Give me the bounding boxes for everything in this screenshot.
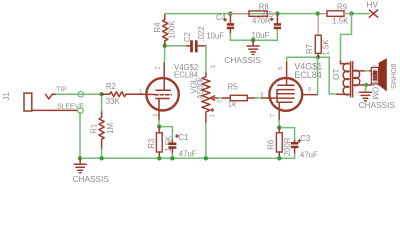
jack tip pin circle [78,91,84,97]
svg-text:C2: C2 [183,32,192,42]
svg-text:47uF: 47uF [179,150,197,159]
wire C2 down to volume pot [205,46,207,73]
svg-text:2: 2 [156,66,162,70]
resistor R2 [102,92,140,97]
node R4/C2/anode [163,44,167,48]
svg-text:OT: OT [331,68,341,80]
wire R9 to HV [350,13,370,15]
capacitor C4 [227,15,234,40]
transformer OT secondary winding [354,70,372,85]
wire wiper to R5 [218,97,222,99]
svg-text:6: 6 [278,66,284,70]
wire cathode V4G$2 down [158,120,160,126]
V4G$1 grid g3 dashes [278,89,294,91]
capacitor C2 coupling [167,40,206,52]
C1 origin mark [176,135,178,137]
transformer core lines [351,62,353,97]
node rail/R7 [316,11,320,15]
V4G$1 grid g2 dashes [278,93,294,95]
wire C4 bottom to C5 bottom [230,29,277,40]
node pot/bus [204,156,208,160]
svg-text:CHASSIS: CHASSIS [73,174,110,184]
node sleeve/bus [78,156,82,160]
node tip/R2/R1 junction [99,92,103,96]
svg-text:10uF: 10uF [252,31,270,40]
svg-text:10KOM: 10KOM [371,73,380,99]
V4G$1 grid lead pin 8 [262,97,277,99]
resistor R3 [156,127,162,159]
node ground tap [251,38,255,42]
node R9/HV/OT [349,11,353,15]
node C1/bus [170,156,174,160]
V4G$2 anode lead (pin 2) [163,62,165,90]
svg-text:TIP: TIP [56,87,67,94]
svg-text:1k: 1k [228,99,236,108]
HV rail wire [165,13,323,15]
ground bus wire [80,157,295,159]
V4G$1 anode lead (pin 6) [286,61,288,85]
node anode/R7 [316,55,320,59]
svg-text:1: 1 [210,113,216,117]
svg-text:10uF: 10uF [206,31,224,40]
jack tip contact [46,94,57,99]
wire pot bottom to bus [205,123,207,158]
wire cathode V4G$1 down [278,120,280,127]
transformer OT primary winding [337,61,349,95]
resistor R9 [320,11,350,16]
wire anode V4G$1 up and right to R7 bottom [287,57,330,61]
tube V4G$2 triode circle [146,78,178,110]
svg-text:2: 2 [218,99,224,103]
svg-text:200R: 200R [283,137,292,156]
svg-text:R5: R5 [228,83,239,92]
resistor R4 [163,14,168,45]
resistor R5 [222,95,255,100]
node rail/C4 [228,11,232,15]
V4G$1 screen lead (pin 9) [302,94,317,96]
svg-text:R9: R9 [337,2,347,11]
svg-text:C1: C1 [178,133,188,142]
svg-text:HV: HV [367,0,379,10]
node speaker/ground [364,83,368,87]
potentiometer VOL A500k [202,73,219,123]
wire R1 to ground bus [101,149,103,158]
V4G$2 anode bar [156,89,170,91]
ground chassis right [359,92,371,100]
svg-text:J1: J1 [2,92,11,100]
svg-text:47uF: 47uF [300,151,318,160]
node R3/C1 [157,124,161,128]
capacitor C1 [161,127,176,159]
C4 origin mark [224,19,226,21]
capacitor C3 [281,128,298,159]
C3 origin mark [298,140,300,142]
svg-text:R7: R7 [305,44,314,54]
node R3/bus [157,156,161,160]
V4G$1 cathode bar [278,101,292,103]
capacitor C5 [274,15,281,29]
wire plate node down to OT primary bottom [329,57,337,94]
svg-text:R4: R4 [153,22,162,33]
svg-text:7: 7 [270,113,276,117]
svg-text:R3: R3 [147,139,156,149]
jack sleeve pin circle [78,108,84,114]
node R6/C3 [277,125,281,129]
wire R5 to pin 8 [255,97,262,99]
resistor R8 [230,11,276,16]
C5 origin mark [271,18,273,20]
svg-text:.022: .022 [197,26,206,41]
HV net flag X [369,10,377,17]
V4G$1 anode bar [278,84,294,86]
svg-text:100K: 100K [168,20,177,39]
resistor R1 [99,112,104,149]
wire to chassis right [365,85,367,92]
wire HV node to OT primary top [341,14,352,61]
svg-text:A500k: A500k [196,77,205,99]
wire anode up to R4/C2 node [164,46,166,62]
tube V4G$1 pentode circle [269,78,302,111]
svg-text:1M: 1M [106,123,115,134]
node R6/bus [277,156,281,160]
wire R7 bottom down to pin 9 [317,57,319,94]
node rail/C5 [275,11,279,15]
V4G$1 cathode lead (pin 7) [278,102,280,120]
resistor R7 [315,15,321,57]
svg-text:8OHMS: 8OHMS [389,64,396,89]
node R1/bus [99,156,103,160]
svg-text:33K: 33K [106,97,121,106]
V4G$2 grid dashes [155,94,172,96]
svg-text:1.5K: 1.5K [321,39,330,56]
V4G$1 grid g1 dashes [278,97,294,99]
svg-text:R6: R6 [267,140,276,150]
svg-text:CHASSIS: CHASSIS [224,55,261,65]
svg-text:R8: R8 [259,2,269,11]
svg-text:C3: C3 [300,134,310,143]
wire tip to node [57,93,102,95]
ground chassis left [74,158,86,172]
svg-text:CHASSIS: CHASSIS [359,100,396,110]
svg-text:9: 9 [308,87,312,93]
resistor R6 [276,128,282,159]
jack sleeve contact [32,109,78,111]
V4G$2 cathode lead (pin 3) [158,99,160,121]
wire node down to R1 [101,96,103,117]
svg-text:R1: R1 [90,124,99,134]
V4G$2 cathode bar [156,98,169,100]
connector J1 jack body [24,93,32,111]
ground chassis middle [247,40,259,54]
wire sleeve down to bus [79,113,81,159]
wire R2 to tube grid pin [139,93,155,95]
speaker cone [379,58,387,91]
svg-text:R2: R2 [106,82,116,91]
svg-text:1.5K: 1.5K [332,16,349,25]
pot origin mark [211,109,213,111]
V4G$1 grid tie stub [276,90,278,103]
svg-text:3: 3 [211,65,217,69]
svg-text:470R: 470R [252,16,271,25]
speaker SPKR body [371,67,378,84]
